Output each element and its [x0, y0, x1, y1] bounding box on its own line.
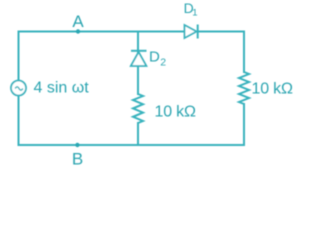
svg-text:2: 2 — [160, 57, 166, 69]
svg-text:10 kΩ: 10 kΩ — [252, 81, 293, 98]
svg-text:B: B — [72, 149, 83, 168]
svg-text:D: D — [149, 48, 160, 65]
svg-text:A: A — [72, 12, 84, 31]
svg-text:10 kΩ: 10 kΩ — [155, 104, 196, 121]
svg-text:1: 1 — [192, 8, 197, 19]
svg-text:4 sin ωt: 4 sin ωt — [34, 80, 90, 97]
